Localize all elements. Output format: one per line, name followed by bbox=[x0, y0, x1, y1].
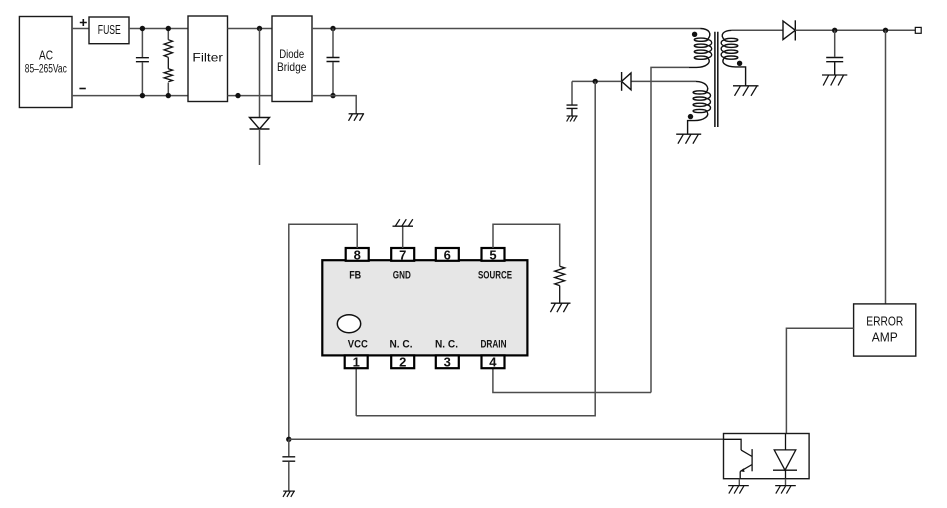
svg-text:ERROR: ERROR bbox=[866, 313, 903, 328]
diode bridge block bbox=[272, 16, 312, 102]
capacitor C5 (FB) bbox=[282, 439, 295, 491]
wire bridge bottom to ground bbox=[312, 96, 356, 114]
aux phase dot bbox=[688, 114, 693, 119]
node dot R bottom bbox=[166, 93, 171, 98]
svg-text:6: 6 bbox=[444, 247, 451, 262]
capacitor C2 (bulk) bbox=[327, 29, 340, 96]
wire pin5 to source resistor bbox=[493, 224, 560, 266]
svg-text:N. C.: N. C. bbox=[390, 339, 413, 351]
wire vcc diode to cap bbox=[572, 80, 622, 82]
transformer primary winding bbox=[689, 29, 712, 68]
capacitor C3 (output) bbox=[826, 30, 843, 75]
pin 2 box bbox=[391, 355, 414, 370]
wire pin7 to ground bbox=[402, 226, 404, 248]
output terminal bbox=[915, 27, 921, 33]
svg-text:3: 3 bbox=[444, 355, 451, 370]
wire filter to bridge bottom bbox=[228, 95, 273, 97]
opto LED bbox=[773, 434, 797, 479]
node dot bulk cap bottom bbox=[330, 93, 335, 98]
transformer aux winding bbox=[688, 81, 711, 134]
resistor R2 (lower discharge) bbox=[164, 57, 172, 95]
plus terminal label bbox=[80, 19, 87, 26]
pin 6 box bbox=[436, 247, 459, 262]
svg-text:5: 5 bbox=[489, 247, 496, 262]
diode D2 (output rectifier) bbox=[732, 20, 796, 40]
diode D1 (inrush, pointing down) bbox=[250, 118, 270, 166]
svg-text:SOURCE: SOURCE bbox=[478, 270, 512, 282]
wire bridge to transformer bbox=[312, 28, 701, 30]
wire AC+ to fuse bbox=[72, 28, 89, 30]
pin 1 box bbox=[345, 355, 368, 370]
svg-text:1: 1 bbox=[353, 355, 360, 370]
secondary phase dot bbox=[737, 61, 742, 66]
ground G5 (vcc cap) bbox=[567, 116, 578, 122]
node dot error amp tap bbox=[883, 28, 888, 33]
primary phase dot bbox=[692, 32, 697, 37]
opto phototransistor bbox=[724, 439, 753, 478]
node dot bottom bbox=[235, 93, 240, 98]
wire filter to bridge top bbox=[228, 28, 273, 30]
svg-text:N. C.: N. C. bbox=[435, 339, 458, 351]
wire pin8 FB net bbox=[289, 224, 357, 439]
wire vcc net down to pin1 bbox=[356, 81, 595, 415]
wire output rail bbox=[795, 29, 915, 31]
svg-text:AC: AC bbox=[39, 48, 53, 63]
ground G1 (primary bus) bbox=[349, 114, 365, 121]
node dot FB cap bbox=[286, 437, 291, 442]
pin 7 box bbox=[391, 247, 414, 262]
svg-text:AMP: AMP bbox=[872, 330, 898, 345]
wire pin1 stub bbox=[355, 368, 357, 416]
node dot bulk cap top bbox=[330, 26, 335, 31]
resistor R1 (upper discharge) bbox=[164, 29, 172, 58]
svg-text:FUSE: FUSE bbox=[98, 22, 121, 37]
transformer secondary winding bbox=[721, 30, 745, 86]
ground G9 (opto transistor) bbox=[728, 486, 749, 494]
svg-text:7: 7 bbox=[399, 247, 406, 262]
pin 1 indicator circle bbox=[337, 315, 360, 333]
wire AC- bottom rail bbox=[72, 95, 188, 97]
IC U1 body bbox=[322, 260, 527, 355]
wire opto LED ground bbox=[785, 479, 787, 486]
svg-text:VCC: VCC bbox=[348, 339, 368, 351]
wire error amp sense bbox=[885, 30, 887, 304]
ground G6 (source resistor) bbox=[550, 303, 570, 312]
ground G10 (opto LED) bbox=[775, 486, 796, 494]
fuse F1 bbox=[89, 17, 129, 44]
resistor R3 (source sense) bbox=[555, 266, 565, 303]
node dot C1 top bbox=[140, 26, 145, 31]
filter block bbox=[188, 16, 228, 102]
optocoupler U2 box bbox=[724, 434, 810, 479]
svg-text:4: 4 bbox=[489, 355, 497, 370]
AC source block bbox=[19, 17, 72, 108]
capacitor C1 (X-cap) bbox=[136, 29, 149, 96]
wire FB to opto bbox=[289, 438, 724, 440]
wire primary bottom to drain net bbox=[651, 67, 689, 392]
wire aux to vcc diode bbox=[631, 80, 696, 82]
svg-text:2: 2 bbox=[399, 355, 406, 370]
ground G4 (output cap) bbox=[822, 75, 847, 86]
pin 3 box bbox=[436, 355, 459, 370]
ground G3 (aux) bbox=[676, 134, 701, 144]
wire fuse to filter bbox=[129, 28, 188, 30]
svg-text:8: 8 bbox=[354, 247, 361, 262]
wire drain horizontal to pin4 bbox=[493, 368, 651, 392]
pin 4 box bbox=[482, 355, 505, 370]
wire down to diode D1 bbox=[259, 29, 261, 118]
capacitor C4 (VCC) bbox=[567, 81, 578, 116]
node dot vcc bbox=[593, 79, 598, 84]
svg-text:Filter: Filter bbox=[192, 51, 223, 65]
pin 5 box bbox=[482, 247, 505, 262]
wire opto emitter ground bbox=[738, 479, 740, 486]
svg-text:GND: GND bbox=[393, 270, 411, 282]
diode D3 (VCC, pointing left) bbox=[622, 72, 631, 91]
svg-text:85–265Vac: 85–265Vac bbox=[25, 64, 67, 76]
ground G8 (FB cap) bbox=[283, 491, 295, 497]
wire error amp to opto LED bbox=[786, 328, 853, 433]
ground G2 (secondary) bbox=[733, 86, 759, 96]
pin 8 box bbox=[346, 247, 369, 262]
ground G7 (pin7, inverted) bbox=[393, 219, 414, 226]
svg-text:DRAIN: DRAIN bbox=[481, 339, 507, 351]
node dot top diode tap bbox=[257, 26, 262, 31]
svg-text:Bridge: Bridge bbox=[277, 60, 307, 74]
node dot output cap bbox=[832, 28, 837, 33]
minus terminal label bbox=[79, 88, 85, 90]
error amp block bbox=[854, 304, 916, 356]
svg-text:FB: FB bbox=[349, 270, 361, 282]
node dot C1 bottom bbox=[140, 93, 145, 98]
transformer T1 core bbox=[715, 32, 718, 127]
node dot R top bbox=[166, 26, 171, 31]
